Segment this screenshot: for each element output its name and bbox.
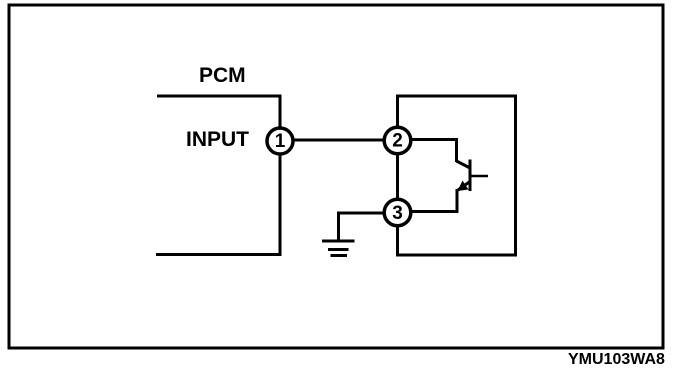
wire pin 2 to transistor collector <box>412 140 457 163</box>
svg-text:1: 1 <box>275 131 286 152</box>
ground symbol <box>322 241 355 256</box>
pin 3 terminal circle <box>384 199 411 226</box>
svg-text:2: 2 <box>392 131 403 152</box>
transistor Q1 base bar <box>469 160 472 192</box>
pin 1 terminal circle <box>267 128 293 154</box>
wire pin 1 to pin 2 <box>294 139 385 142</box>
transistor Q1 base lead <box>471 175 488 178</box>
transistor Q1 emitter diagonal <box>458 182 470 191</box>
transistor Q1 emitter arrow <box>458 181 469 192</box>
PCM block top edge wire <box>157 95 282 98</box>
svg-text:3: 3 <box>392 203 403 224</box>
transistor Q1 collector diagonal <box>457 161 471 168</box>
svg-text:YMU103WA8: YMU103WA8 <box>568 351 665 368</box>
wire pin 3 to ground <box>339 213 385 241</box>
pin 2 terminal circle <box>384 127 411 154</box>
svg-text:INPUT: INPUT <box>186 128 249 151</box>
wire transistor emitter to pin 3 <box>412 189 458 212</box>
component box (sensor) <box>398 96 516 255</box>
svg-text:PCM: PCM <box>199 64 246 87</box>
wire from pin 1 down <box>279 152 282 256</box>
PCM block bottom edge wire <box>156 253 282 256</box>
wire from PCM top edge down to pin 1 <box>279 96 282 130</box>
